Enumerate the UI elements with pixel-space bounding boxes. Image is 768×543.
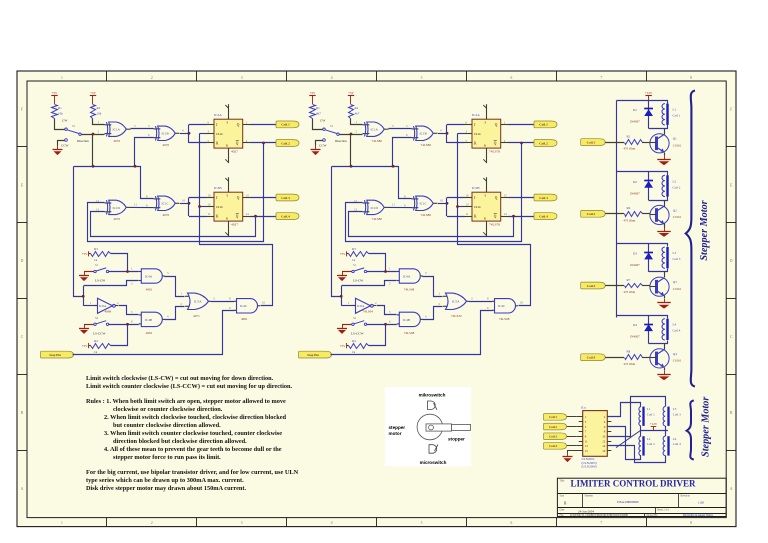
emitter wire Q1 bbox=[664, 153, 666, 156]
transistor Q1 bbox=[650, 134, 670, 153]
svg-text:8: 8 bbox=[690, 521, 692, 525]
svg-text:Date: Date bbox=[560, 508, 566, 511]
svg-text:L2: L2 bbox=[673, 179, 677, 183]
winding L4 (Coil 4) bbox=[663, 436, 668, 455]
svg-text:74LS08: 74LS08 bbox=[499, 317, 510, 321]
wire direction to IC1B pin6 ch1 bbox=[135, 138, 154, 167]
net label Coil.3 ch2 bbox=[534, 194, 557, 201]
jk flip-flop IC2B ch2 bbox=[465, 177, 509, 236]
svg-text:LIMITER CONTROL DRIVER: LIMITER CONTROL DRIVER bbox=[570, 479, 696, 489]
svg-text:13: 13 bbox=[585, 444, 589, 448]
svg-text:IC1D: IC1D bbox=[113, 206, 121, 210]
svg-text:13: 13 bbox=[208, 203, 212, 207]
svg-text:Coil.3: Coil.3 bbox=[539, 196, 548, 200]
svg-text:74LS86: 74LS86 bbox=[421, 213, 432, 217]
svg-text:+5V: +5V bbox=[340, 344, 346, 348]
xor gate IC1C ch2 bbox=[412, 196, 438, 217]
svg-text:stopper: stopper bbox=[448, 437, 465, 442]
junction Coil.2 feedback ch2 bbox=[520, 142, 523, 145]
svg-text:10: 10 bbox=[466, 194, 470, 198]
svg-text:7: 7 bbox=[600, 76, 602, 80]
label stepper motor bbox=[389, 425, 406, 436]
uln ic box bbox=[583, 411, 608, 457]
svg-text:R3: R3 bbox=[352, 247, 356, 251]
svg-text:IC2B: IC2B bbox=[472, 186, 480, 190]
net label Coil.2 driver input bbox=[581, 210, 606, 217]
wire Qbar2 to Coil.4 ch1 bbox=[251, 216, 277, 218]
wire IC5A to IC4C pin8 ch2 bbox=[469, 301, 492, 303]
junction direction branch ch1 bbox=[82, 295, 85, 298]
driver stage 1 top rail bbox=[617, 100, 664, 102]
resistor R6 bbox=[625, 212, 643, 217]
feedback Qbar1 to IC1D pin12 ch2 bbox=[346, 143, 522, 242]
direction bus to lower block ch1 bbox=[74, 167, 84, 297]
clock vertical bus ch2 bbox=[457, 134, 459, 246]
svg-text:Direction: Direction bbox=[335, 139, 347, 143]
wire to J input ch1 bbox=[189, 124, 207, 126]
ground at Q1 bbox=[657, 156, 671, 166]
svg-text:Coil 4: Coil 4 bbox=[673, 329, 681, 333]
svg-text:4k7: 4k7 bbox=[316, 112, 321, 116]
resistor R3 ch1 bbox=[91, 247, 111, 262]
wire label to R7 bbox=[605, 285, 624, 287]
inductor L4 coil bbox=[662, 319, 667, 340]
svg-text:IC2B: IC2B bbox=[214, 186, 222, 190]
svg-text:IC2A: IC2A bbox=[472, 113, 480, 117]
junction Coil.4 feedback ch2 bbox=[512, 215, 515, 218]
xor gate IC1B ch1 bbox=[154, 126, 180, 147]
svg-text:K: K bbox=[474, 215, 477, 219]
svg-text:Revision: Revision bbox=[681, 495, 691, 498]
net label Coil.2 uln input bbox=[544, 423, 567, 430]
svg-text:IC5A: IC5A bbox=[194, 300, 202, 304]
clock tap to CLK2 ch1 bbox=[200, 206, 207, 208]
wire branch to IC4A pin2 ch1 bbox=[84, 281, 139, 286]
J2-K2 tie vertical ch1 bbox=[188, 198, 190, 217]
junction IC1B pin6 tap ch1 bbox=[134, 165, 137, 168]
wire IC4C out to clock bus ch2 bbox=[458, 245, 531, 306]
svg-text:A: A bbox=[730, 487, 733, 491]
wire uln pin 15 to ground bbox=[568, 451, 583, 453]
svg-text:74LS76: 74LS76 bbox=[489, 150, 500, 154]
diode D1 bbox=[644, 109, 653, 117]
svg-text:1.00: 1.00 bbox=[698, 500, 704, 504]
svg-text:74LS86: 74LS86 bbox=[421, 143, 432, 147]
svg-text:C1061: C1061 bbox=[673, 287, 682, 291]
svg-text:L3: L3 bbox=[673, 407, 677, 411]
svg-text:R1: R1 bbox=[316, 106, 320, 110]
svg-text:15: 15 bbox=[585, 449, 589, 453]
svg-text:L2: L2 bbox=[647, 437, 651, 441]
svg-text:motor: motor bbox=[389, 431, 402, 436]
wire to K2 ch2 bbox=[447, 216, 465, 218]
svg-text:2. When limit switch clockwise: 2. When limit switch clockwise touched, … bbox=[104, 414, 287, 421]
wire IC1D out to IC1C ch1 bbox=[131, 206, 154, 208]
uln pin stubs and numbers bbox=[576, 415, 614, 453]
direction bus ch1 bbox=[92, 135, 94, 167]
svg-text:R1: R1 bbox=[58, 106, 62, 110]
svg-text:1k: 1k bbox=[352, 350, 356, 354]
inductor L2 top wire bbox=[664, 172, 668, 176]
inverter IC6A ch1 bbox=[95, 298, 119, 313]
resistor R5 bbox=[625, 140, 643, 145]
resistor R4 ch2 bbox=[349, 339, 369, 354]
svg-text:470 Ohm: 470 Ohm bbox=[624, 362, 636, 366]
svg-text:Q: Q bbox=[495, 123, 498, 127]
resistor R1 ch2 bbox=[310, 105, 322, 119]
net label Stop Pin ch2 bbox=[299, 351, 332, 358]
wire inverter out to IC4B pin5 ch2 bbox=[377, 306, 397, 315]
svg-text:K: K bbox=[216, 215, 219, 219]
junction J2-K2 tie ch1 bbox=[188, 202, 191, 205]
svg-text:IC1B: IC1B bbox=[420, 132, 428, 136]
limit switch LS-CW ch1 bbox=[94, 268, 109, 273]
winding L1 (Coil 1) bbox=[639, 407, 644, 426]
clock wire to CLK1 ch1 bbox=[200, 133, 207, 135]
svg-text:15: 15 bbox=[504, 194, 508, 198]
limit switch LS-CW ch2 bbox=[352, 268, 367, 273]
svg-text:R2: R2 bbox=[97, 106, 101, 110]
inner border bbox=[27, 81, 726, 518]
svg-text:R3: R3 bbox=[94, 247, 98, 251]
direction switch S1 ch1 bbox=[65, 128, 81, 135]
svg-text:Coil.3: Coil.3 bbox=[281, 196, 290, 200]
direction bus ch2 bbox=[350, 135, 352, 167]
direction bus horizontal ch2 bbox=[332, 166, 351, 168]
resistor R1 ch1 bbox=[52, 105, 64, 119]
svg-text:Q: Q bbox=[237, 196, 240, 200]
svg-text:David Riyan Anung Nidya: David Riyan Anung Nidya bbox=[683, 514, 714, 517]
number label bbox=[585, 495, 640, 504]
svg-text:+5V: +5V bbox=[52, 91, 58, 95]
clock vertical bus ch1 bbox=[199, 134, 201, 246]
svg-text:R6: R6 bbox=[627, 206, 631, 210]
svg-text:Coil.4: Coil.4 bbox=[587, 356, 596, 360]
wire Coil.3 to uln pin 5 bbox=[567, 436, 576, 438]
collector wire Q4 bbox=[664, 344, 666, 350]
svg-text:S1: S1 bbox=[72, 124, 76, 128]
center tap wire bbox=[641, 430, 668, 432]
junction J-K tie ch1 bbox=[188, 132, 191, 135]
svg-text:Rules : 1. When both limit swi: Rules : 1. When both limit switch are op… bbox=[86, 398, 286, 405]
and gate IC4B ch2 bbox=[397, 312, 423, 335]
collector wire Q3 bbox=[664, 272, 666, 278]
wire CCW throw to ground ch1 bbox=[58, 141, 65, 146]
svg-text:4069: 4069 bbox=[105, 310, 112, 314]
wire R4 to LS-CCW node ch2 bbox=[369, 325, 386, 346]
wire LS-CCW to IC4B pin6 ch1 bbox=[109, 324, 139, 326]
driver stage 4 top rail bbox=[617, 315, 664, 317]
svg-text:IC1A: IC1A bbox=[113, 128, 121, 132]
svg-text:LS-CCW: LS-CCW bbox=[93, 331, 106, 335]
svg-text:S1: S1 bbox=[330, 124, 334, 128]
wire IC1C out to JK tie ch2 bbox=[438, 203, 447, 205]
resistor R2 ch1 bbox=[91, 105, 102, 119]
resistor R2 ch2 bbox=[349, 105, 360, 119]
svg-text:4. All of these mean to preven: 4. All of these mean to prevent the gear… bbox=[104, 446, 282, 453]
winding L3 (Coil 3) bbox=[663, 407, 668, 426]
svg-text:74LS86: 74LS86 bbox=[372, 217, 383, 221]
svg-text:Q: Q bbox=[494, 215, 497, 219]
svg-text:IC1B: IC1B bbox=[162, 132, 170, 136]
svg-text:1N4007: 1N4007 bbox=[630, 120, 641, 124]
inductor L4 top wire bbox=[664, 316, 668, 319]
svg-text:24-Jan-2004: 24-Jan-2004 bbox=[578, 509, 594, 513]
svg-text:Stop Pin: Stop Pin bbox=[49, 353, 61, 357]
svg-text:1N4007: 1N4007 bbox=[630, 335, 641, 339]
power +5V (R2) ch1 bbox=[90, 91, 97, 104]
svg-text:10: 10 bbox=[440, 198, 444, 202]
wire IC4C out to clock bus ch1 bbox=[200, 245, 273, 306]
svg-text:6: 6 bbox=[511, 521, 513, 525]
svg-text:4081: 4081 bbox=[241, 317, 248, 321]
svg-text:4071: 4071 bbox=[193, 314, 200, 318]
revision label bbox=[681, 495, 705, 505]
net label Coil.4 driver input bbox=[581, 354, 606, 361]
svg-text:Coil.3: Coil.3 bbox=[549, 435, 557, 439]
net label Coil.3 ch1 bbox=[276, 194, 299, 201]
wire to J2 ch1 bbox=[189, 197, 207, 199]
wire IC4A out to IC5A ch1 bbox=[165, 277, 185, 297]
inductor L3 top wire bbox=[664, 244, 668, 247]
winding L1 labels bbox=[647, 407, 655, 416]
svg-text:+5V: +5V bbox=[348, 91, 354, 95]
svg-text:R: R bbox=[484, 217, 486, 221]
svg-text:Stepper Motor: Stepper Motor bbox=[701, 396, 712, 457]
switch CCW throw ch1 bbox=[65, 139, 68, 142]
wire ground to LS-CW ch1 bbox=[84, 271, 94, 273]
direction bus junction ch1 bbox=[92, 165, 95, 168]
svg-text:Q: Q bbox=[236, 215, 239, 219]
emitter wire Q2 bbox=[664, 224, 666, 228]
feedback Qbar1 to IC1D pin12 ch1 bbox=[88, 143, 264, 242]
svg-text:11: 11 bbox=[134, 202, 137, 206]
svg-text:IC2A: IC2A bbox=[214, 113, 222, 117]
svg-text:Q1: Q1 bbox=[673, 137, 677, 141]
winding L2 labels bbox=[647, 437, 655, 446]
net label Coil.1 driver input bbox=[581, 139, 606, 146]
svg-text:IC5A: IC5A bbox=[452, 300, 460, 304]
svg-text:+12V: +12V bbox=[650, 422, 658, 426]
svg-text:2: 2 bbox=[151, 76, 153, 80]
svg-text:11: 11 bbox=[585, 439, 588, 443]
or gate IC5A ch2 bbox=[443, 293, 469, 318]
svg-text:1N4007: 1N4007 bbox=[630, 263, 641, 267]
svg-text:C1061: C1061 bbox=[673, 144, 682, 148]
svg-text:1k: 1k bbox=[94, 258, 98, 262]
svg-text:IC1C: IC1C bbox=[420, 202, 428, 206]
svg-text:IC4A: IC4A bbox=[145, 274, 153, 278]
net label Coil.1 ch2 bbox=[534, 121, 557, 128]
driver stage 2 top rail bbox=[617, 171, 664, 173]
xor gate IC1D ch2 bbox=[363, 200, 389, 221]
xor gate IC1A ch2 bbox=[363, 122, 389, 143]
junction Coil.2 feedback ch1 bbox=[262, 142, 265, 145]
power +5V (R3) ch2 bbox=[340, 251, 347, 256]
schematic sheet bbox=[17, 71, 736, 527]
wire R8 to base bbox=[642, 357, 651, 359]
junction direction branch ch2 bbox=[340, 295, 343, 298]
collector wire Q1 bbox=[664, 129, 666, 135]
svg-text:R: R bbox=[484, 144, 486, 148]
J-K tie vertical ch1 bbox=[188, 125, 190, 144]
svg-text:Coil.2: Coil.2 bbox=[539, 141, 548, 145]
svg-text:3: 3 bbox=[241, 76, 243, 80]
motor circle bbox=[417, 414, 443, 440]
clock wire to CLK1 ch2 bbox=[458, 133, 465, 135]
ground at Q3 bbox=[657, 299, 671, 309]
svg-text:4070: 4070 bbox=[114, 139, 121, 143]
svg-text:Q3: Q3 bbox=[673, 280, 677, 284]
svg-text:CLK: CLK bbox=[474, 205, 481, 209]
svg-text:13: 13 bbox=[96, 208, 100, 212]
diode D1 wire bbox=[648, 100, 650, 128]
svg-text:F: F bbox=[21, 107, 23, 111]
svg-text:74LS86: 74LS86 bbox=[372, 139, 383, 143]
direction bus junction ch2 bbox=[350, 165, 353, 168]
svg-text:S2: S2 bbox=[353, 316, 357, 320]
ground at LS-CCW ch2 bbox=[337, 324, 347, 334]
wire branch to inverter ch2 bbox=[342, 305, 356, 307]
xor gate IC1D ch1 bbox=[105, 200, 131, 221]
svg-text:microswitch: microswitch bbox=[420, 460, 447, 465]
svg-text:F: F bbox=[730, 107, 732, 111]
svg-text:type series which can be drawn: type series which can be drawn up to 300… bbox=[86, 477, 244, 484]
diode D3 wire bbox=[648, 244, 650, 272]
svg-text:clockwise or counter clockwise: clockwise or counter clockwise direction… bbox=[113, 406, 223, 413]
wire IC4A out to IC5A ch2 bbox=[423, 277, 443, 297]
power +12V center tap bbox=[650, 422, 658, 430]
title block frame bbox=[557, 478, 726, 516]
svg-text:L4: L4 bbox=[673, 437, 677, 441]
wire R3 to LS-CW node ch2 bbox=[369, 254, 386, 272]
svg-text:CLK: CLK bbox=[216, 205, 223, 209]
svg-text:LS-CW: LS-CW bbox=[353, 279, 364, 283]
svg-text:Direction: Direction bbox=[77, 139, 89, 143]
svg-text:CCW: CCW bbox=[61, 144, 69, 148]
ground at LS-CW ch1 bbox=[79, 272, 89, 282]
svg-text:C1061: C1061 bbox=[673, 359, 682, 363]
inductor L1 coil bbox=[662, 104, 668, 125]
wire Coil.4 to uln pin 7 bbox=[567, 445, 576, 447]
wire LS-CCW to IC4B pin6 ch2 bbox=[367, 324, 397, 326]
junction R3/LS-CW ch1 bbox=[126, 270, 129, 273]
svg-text:For the big current, use bipol: For the big current, use bipolar transis… bbox=[86, 469, 299, 476]
svg-text:K: K bbox=[216, 142, 219, 146]
junction clock CLK2 ch1 bbox=[198, 205, 201, 208]
and gate IC4C ch2 bbox=[492, 299, 518, 322]
date row bbox=[560, 508, 671, 513]
wire ground to LS-CW ch2 bbox=[342, 271, 352, 273]
or gate IC5A ch1 bbox=[185, 293, 211, 318]
svg-text:Stop Pin: Stop Pin bbox=[307, 353, 319, 357]
svg-text:IC6A: IC6A bbox=[357, 304, 365, 308]
svg-text:11: 11 bbox=[466, 212, 469, 216]
svg-text:L4: L4 bbox=[673, 323, 677, 327]
wire Coil.2 to uln pin 3 bbox=[567, 426, 576, 428]
wire R1 to switch ch1 bbox=[55, 119, 65, 130]
wire label to R5 bbox=[605, 142, 624, 144]
wire to J input ch2 bbox=[447, 124, 465, 126]
wire IC1A out to IC1B ch1 bbox=[131, 128, 154, 130]
svg-text:Title: Title bbox=[560, 480, 566, 483]
svg-text:R: R bbox=[226, 144, 228, 148]
wire Coil.1 to uln pin 1 bbox=[567, 416, 576, 418]
svg-text:4027: 4027 bbox=[231, 223, 238, 227]
center tap right stub bbox=[665, 426, 667, 436]
svg-text:R2: R2 bbox=[355, 106, 359, 110]
svg-text:IC4C: IC4C bbox=[240, 304, 248, 308]
svg-text:L3: L3 bbox=[673, 251, 677, 255]
wire R2 to IC1A pin1 ch1 bbox=[93, 119, 105, 125]
wire label to R8 bbox=[605, 357, 624, 359]
svg-text:4070: 4070 bbox=[114, 217, 121, 221]
svg-text:D2: D2 bbox=[633, 180, 637, 184]
svg-text:C1061: C1061 bbox=[673, 215, 682, 219]
svg-text:10: 10 bbox=[520, 300, 524, 304]
jk flip-flop IC2B ch1 bbox=[207, 177, 251, 236]
svg-text:Coil.2: Coil.2 bbox=[281, 141, 290, 145]
svg-text:IC6A: IC6A bbox=[99, 304, 107, 308]
jk flip-flop IC2A ch2 bbox=[465, 104, 509, 163]
xor gate IC1A ch1 bbox=[105, 122, 131, 143]
svg-text:10: 10 bbox=[602, 435, 606, 439]
svg-text:IC4B: IC4B bbox=[145, 318, 153, 322]
svg-text:10k: 10k bbox=[97, 112, 102, 116]
svg-text:10: 10 bbox=[182, 198, 186, 202]
svg-text:Coil.1: Coil.1 bbox=[587, 140, 596, 144]
svg-text:5: 5 bbox=[421, 76, 423, 80]
wire R2 to IC1A pin1 ch2 bbox=[351, 119, 363, 125]
jk flip-flop IC2A ch1 bbox=[207, 104, 251, 163]
inductor L2 bottom wire bbox=[649, 197, 668, 201]
direction bus to row2 ch1 bbox=[93, 167, 154, 199]
svg-text:Coil 1: Coil 1 bbox=[673, 114, 681, 118]
junction R4/LS-CCW ch2 bbox=[384, 323, 387, 326]
svg-text:CW: CW bbox=[320, 119, 326, 123]
net label Coil.1 uln input bbox=[544, 414, 567, 421]
junction clock CLK2 ch2 bbox=[456, 205, 459, 208]
wire to K input ch2 bbox=[447, 142, 465, 144]
junction J-K tie ch2 bbox=[446, 132, 449, 135]
stopper arm bbox=[426, 424, 471, 431]
svg-text:+5V: +5V bbox=[340, 252, 346, 256]
transistor Q3 bbox=[650, 277, 670, 296]
svg-text:Limit switch clockwise (LS-CW): Limit switch clockwise (LS-CW) = cut out… bbox=[86, 375, 274, 382]
svg-text:1: 1 bbox=[61, 76, 63, 80]
ground at LS-CCW ch1 bbox=[79, 324, 89, 334]
collector wire Q2 bbox=[664, 201, 666, 207]
svg-text:Coil 3: Coil 3 bbox=[673, 412, 681, 416]
svg-text:but counter clockwise directio: but counter clockwise direction allowed. bbox=[113, 422, 221, 429]
svg-text:D1: D1 bbox=[633, 108, 637, 112]
svg-text:A: A bbox=[21, 487, 24, 491]
junction R3/LS-CW ch2 bbox=[384, 270, 387, 273]
and gate IC4C ch1 bbox=[234, 299, 260, 322]
svg-text:Number: Number bbox=[585, 495, 594, 498]
wire ground to LS-CCW ch2 bbox=[342, 324, 352, 326]
svg-text:14: 14 bbox=[504, 212, 508, 216]
svg-text:Stepper Motor: Stepper Motor bbox=[699, 199, 710, 260]
stepper motor brace (driver) bbox=[686, 91, 695, 387]
svg-text:470 Ohm: 470 Ohm bbox=[624, 147, 636, 151]
wire branch to inverter ch1 bbox=[84, 305, 98, 307]
svg-text:+5V: +5V bbox=[90, 91, 96, 95]
junction Coil.4 feedback ch1 bbox=[254, 215, 257, 218]
junction R4/LS-CCW ch1 bbox=[126, 323, 129, 326]
wire Stop Pin to IC4C pin9 ch2 bbox=[331, 311, 493, 355]
power +5V (R3) ch1 bbox=[82, 251, 89, 256]
